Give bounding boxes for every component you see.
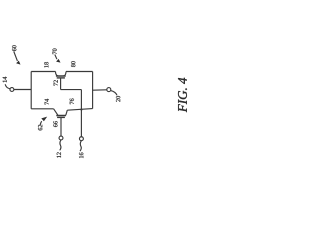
- wire: box left edge: [30, 72, 32, 109]
- wire: node vertical down to terminal 16: [80, 90, 82, 137]
- wire: terminal 14 tail: [5, 84, 10, 89]
- label 76: [70, 99, 74, 105]
- wire: box right edge: [92, 72, 94, 109]
- wire: Q2 gate lead down: [60, 117, 62, 136]
- label 12: [57, 152, 61, 157]
- arrow shaft for label 70: [55, 55, 57, 60]
- arrowhead 60: [16, 61, 20, 65]
- label 70: [53, 49, 57, 55]
- wire: gate node horizontal: [61, 89, 82, 91]
- arrow shaft for label 60: [14, 52, 18, 61]
- arrowhead 62: [41, 117, 47, 122]
- label 14: [3, 77, 7, 83]
- transistor Q1: gate bar: [57, 77, 65, 79]
- transistor Q1 (top): drain lead: [56, 72, 59, 76]
- transistor Q2 (bottom): left lead: [54, 109, 58, 115]
- label 18: [44, 62, 48, 67]
- wire: box to terminal 20: [93, 89, 107, 91]
- transistor Q2: gate bar: [57, 116, 65, 118]
- arrow shaft for label 62: [40, 121, 42, 125]
- terminal 14 circle: [10, 88, 14, 92]
- label 66: [53, 121, 57, 127]
- wire: terminal 16 tail: [80, 141, 81, 152]
- wire: box bottom edge right: [67, 109, 92, 111]
- label 20: [116, 96, 120, 102]
- transistor Q1: channel bar: [56, 75, 66, 77]
- wire: Q1 gate lead down: [60, 78, 62, 90]
- transistor Q2: channel bar: [56, 115, 66, 117]
- transistor Q2: right lead: [66, 110, 68, 115]
- label 16: [79, 153, 83, 158]
- wire: terminal 12 tail: [60, 140, 61, 150]
- wire: terminal 20 tail: [111, 91, 117, 96]
- wire: box top edge right: [66, 71, 93, 73]
- figure caption FIG. 4: [178, 78, 187, 112]
- terminal 20 circle: [107, 88, 111, 92]
- terminal 16 circle: [79, 137, 83, 141]
- label 74: [45, 99, 49, 105]
- label 80: [71, 61, 75, 67]
- wire: box top edge left: [31, 71, 55, 73]
- arrowhead 70: [56, 59, 60, 63]
- label 62: [38, 125, 42, 131]
- label 72: [54, 80, 58, 85]
- terminal 12 circle: [59, 136, 63, 140]
- transistor Q1: source lead: [63, 72, 66, 76]
- wire: terminal 14 to box: [14, 89, 31, 91]
- junction node: [80, 108, 82, 110]
- wire: box bottom edge left: [31, 108, 53, 110]
- label 60: [12, 45, 16, 51]
